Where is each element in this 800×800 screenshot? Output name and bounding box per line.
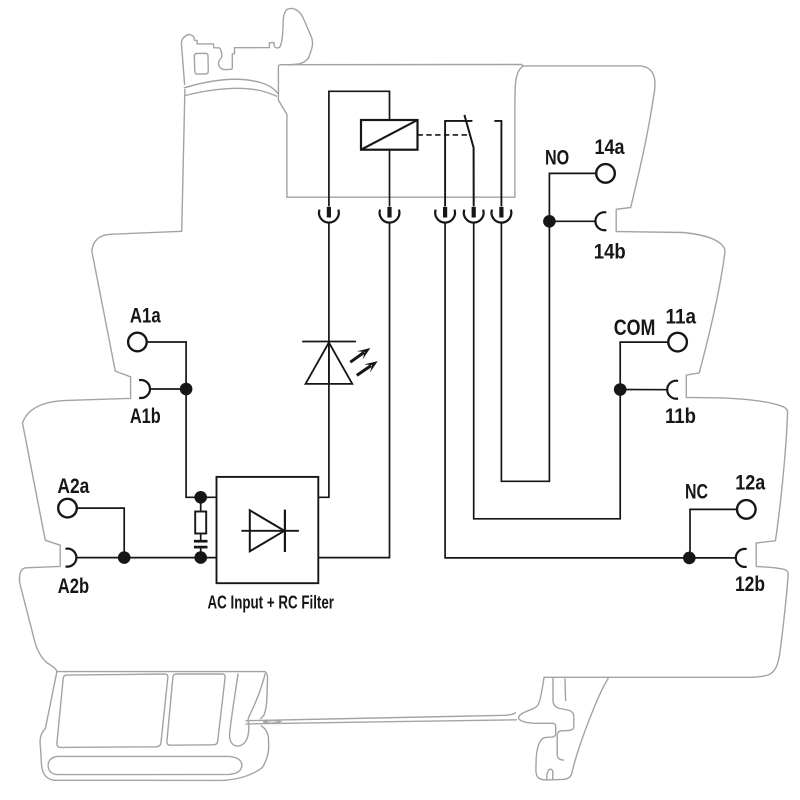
wire COM: 11a over and down xyxy=(620,342,668,389)
svg-text:A2a: A2a xyxy=(57,475,89,498)
node A2 xyxy=(118,551,131,564)
wire RC branch resistor top xyxy=(200,497,202,510)
wire A2a over and down xyxy=(77,508,124,557)
wire NO node to 14b xyxy=(549,220,596,222)
DIN foot window 2 xyxy=(167,674,225,745)
wire terminal 1 down through LED to RC box right xyxy=(318,223,329,497)
release pawl outer xyxy=(519,678,609,780)
latch slider bottom line xyxy=(246,720,517,724)
wire A1a to A1 node down to RC box left xyxy=(147,342,217,497)
terminal pin 5 xyxy=(492,207,512,223)
wire capacitor to A2 line xyxy=(200,548,202,557)
svg-text:14a: 14a xyxy=(595,136,625,159)
release pawl foot bump xyxy=(547,769,553,779)
wire terminal 5 down and up to NO node xyxy=(501,221,549,481)
AC input + RC filter box U1 xyxy=(217,477,319,583)
resistor R1 xyxy=(195,512,206,534)
wire terminal 4 down and up to COM node xyxy=(474,223,621,519)
LED D1 xyxy=(302,342,356,385)
terminal pin 2 xyxy=(380,207,400,223)
svg-text:12b: 12b xyxy=(735,573,765,596)
wire COM node to 11b xyxy=(620,389,668,391)
terminal 11b xyxy=(667,381,678,399)
LED light arrow 2 xyxy=(357,361,378,375)
DIN foot window 1 xyxy=(57,674,168,747)
svg-text:AC Input + RC Filter: AC Input + RC Filter xyxy=(208,593,335,613)
housing middle tier left + bottom tier left edge xyxy=(19,90,184,672)
relay compartment box right/bottom xyxy=(287,66,523,197)
svg-text:NO: NO xyxy=(545,146,569,169)
terminal A2b xyxy=(66,549,77,567)
terminal A2a xyxy=(58,499,77,518)
node RC bottom xyxy=(194,551,207,564)
capacitor C1 xyxy=(194,541,208,547)
actuation dashed link xyxy=(418,134,469,136)
terminal pin 4 xyxy=(464,207,484,223)
LED light arrow 1 xyxy=(350,348,370,362)
terminal pin 3 xyxy=(435,207,455,223)
wire coil bottom to terminal 2 xyxy=(389,150,391,207)
wire NO node: 14a over and down xyxy=(549,173,596,221)
top mounting bracket outer xyxy=(181,8,312,84)
switch moving blade xyxy=(464,115,473,206)
terminal 12a xyxy=(737,500,756,519)
svg-text:A2b: A2b xyxy=(58,575,89,598)
release pawl inner line 2 xyxy=(564,679,567,701)
terminal 11a xyxy=(668,333,687,352)
node COM xyxy=(614,383,627,396)
terminal 14a xyxy=(596,164,615,183)
bracket underside curve lower xyxy=(185,88,276,96)
svg-text:COM: COM xyxy=(614,315,656,340)
latch slider top line xyxy=(246,713,516,721)
node A1 xyxy=(180,383,193,396)
top mounting bracket hole xyxy=(194,53,208,74)
bracket underside curve upper xyxy=(184,79,277,93)
wire terminal 2 down to RC box right xyxy=(318,223,389,558)
svg-text:A1a: A1a xyxy=(130,304,161,327)
switch NC fixed contact bracket xyxy=(445,121,472,206)
terminal A1b xyxy=(139,380,150,398)
housing upper section outline with relay compartment xyxy=(278,65,788,678)
release pawl inner slot xyxy=(553,678,574,760)
svg-text:A1b: A1b xyxy=(130,405,161,428)
DIN foot outline top and right xyxy=(57,672,268,719)
DIN foot slot bar xyxy=(48,756,242,774)
node RC top xyxy=(194,491,207,504)
node NO xyxy=(543,215,556,228)
terminal A1a xyxy=(128,333,147,352)
svg-text:11a: 11a xyxy=(666,305,697,328)
relay coil K1 xyxy=(361,120,418,150)
terminal 12b xyxy=(736,549,747,567)
wire coil top bracket xyxy=(329,91,390,206)
DIN foot diagonal finger xyxy=(230,674,266,746)
terminal pin 1 xyxy=(319,207,339,223)
wire NC: 12a over and down xyxy=(690,509,737,558)
latch slider lens xyxy=(264,720,282,723)
terminal 14b xyxy=(595,212,606,230)
diode D2 inside box xyxy=(241,510,299,552)
svg-text:11b: 11b xyxy=(665,405,696,428)
wire A1b to node xyxy=(149,388,186,390)
switch NO fixed contact bracket xyxy=(494,121,501,206)
wire terminal 3 down across to 12b xyxy=(445,223,737,558)
wire resistor to capacitor xyxy=(200,534,202,540)
svg-text:14b: 14b xyxy=(594,240,626,263)
wire A2b across to RC box left xyxy=(76,557,217,559)
svg-text:12a: 12a xyxy=(735,471,765,494)
node NC xyxy=(683,552,696,565)
svg-text:NC: NC xyxy=(685,481,708,504)
DIN foot outline left bottom right xyxy=(40,672,269,781)
